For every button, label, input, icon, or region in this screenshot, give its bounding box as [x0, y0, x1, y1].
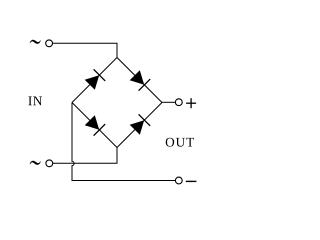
bridge rectifier schematic [0, 0, 225, 225]
AC source symbol ~ (bottom) [30, 161, 41, 165]
terminal circle: top AC input [46, 40, 53, 47]
wire: bottom AC from input terminal right then up to bridge bottom corner [53, 148, 117, 164]
diode D2 upper-right (top corner to right corner) [130, 70, 151, 91]
terminal circle: + output [175, 99, 182, 106]
wire: bridge edge left-to-bottom [72, 103, 117, 148]
diode D3 lower-left (left corner to bottom corner) [85, 115, 106, 136]
terminal circle: - output [175, 177, 182, 184]
wire: bridge edge bottom-to-right [117, 103, 162, 148]
wire: top AC from input terminal right then down to bridge top corner [53, 43, 117, 57]
label + (plus) [186, 98, 196, 108]
wire: bridge left corner down, hop over bottom AC wire, then right to - output terminal [72, 103, 175, 181]
AC source symbol ~ (top) [30, 40, 41, 44]
label IN [28, 97, 42, 106]
wire: bridge edge top-to-right [117, 58, 162, 103]
diode D1 upper-left (left corner to top corner) [85, 69, 106, 90]
diode D4 lower-right (bottom corner to right corner) [130, 114, 151, 135]
wire: bridge right corner to + output terminal [162, 101, 175, 103]
label OUT [166, 138, 194, 147]
label - (minus) [186, 180, 197, 182]
wire: bridge edge left-to-top [72, 58, 117, 103]
terminal circle: bottom AC input [46, 160, 53, 167]
